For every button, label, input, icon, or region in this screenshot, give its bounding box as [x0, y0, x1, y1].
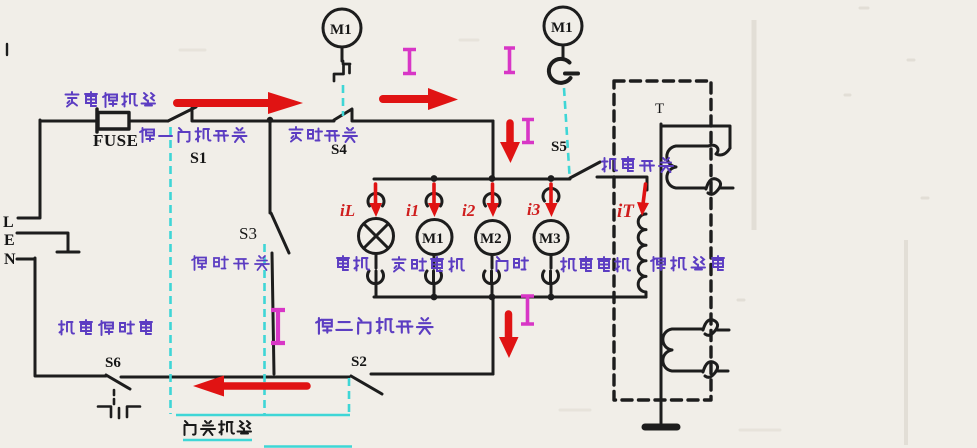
winding: secondary 2 terminal curl upper: [703, 320, 729, 336]
arrow iT primary current: [643, 184, 646, 204]
motor M2 fan circle: [476, 221, 510, 255]
wire: lamp bottom stem: [375, 254, 378, 269]
node dot i3 bottom: [548, 294, 555, 301]
wire: cyan dashed S1 linkage: [169, 127, 172, 414]
arrow I down at feed riser: [506, 123, 514, 144]
label I mark 5 (at S3 leg): [271, 310, 285, 343]
wire: left riser down to L terminal: [18, 120, 40, 218]
wire: top wire S4 to right corner: [352, 120, 493, 123]
wire: M1 stem to bus: [433, 284, 436, 297]
wire: feed riser from top wire down to branch bus: [492, 121, 495, 178]
motor M1 timer motor circle: [417, 220, 452, 255]
arrow I right after S4: [383, 95, 430, 103]
wire: cyan dashed S3 linkage: [263, 244, 266, 414]
wire: M3 stem to bus: [550, 284, 553, 297]
cyan door-state dashed lines: [171, 85, 570, 447]
svg-text:M3: M3: [539, 231, 561, 247]
wire: cyan bottom edge mark: [264, 445, 352, 448]
label 热电断路器 thermal breaker: [59, 320, 152, 335]
wire: cyan door-state box bottom: [176, 414, 350, 417]
wire: cyan dashed S2 linkage: [348, 378, 351, 414]
node E terminal wire: [17, 233, 79, 252]
wire: cyan dashed M1 to S5 linkage: [564, 88, 570, 175]
black latin labels: [3, 20, 664, 371]
wire: top mains wire from left riser to S1: [40, 120, 168, 123]
svg-text:S6: S6: [105, 355, 121, 371]
wire: S3 lower leg to bottom rail: [272, 253, 274, 374]
arrow I right after S1: [177, 99, 270, 107]
label 定时开关 timer switch: [290, 127, 358, 142]
black chinese label 门关状态 door closed state: [185, 421, 252, 435]
wire: bottom rail from S6 to S2: [121, 376, 349, 379]
motor M1 top-left (timer motor coupling): [323, 9, 361, 47]
label 第一闩锁开关 first interlock switch: [140, 128, 247, 142]
connector hook top of M3 branch: [543, 188, 559, 201]
arrow I down at bottom riser: [505, 314, 513, 339]
node junction at S3 tap: [267, 117, 273, 123]
wire: cyan underline of door label: [183, 439, 252, 442]
wire: branch bottom bus to primary coil: [374, 296, 646, 299]
winding: secondary 1 coil: [667, 146, 708, 188]
winding: secondary 1 terminal curl upper: [708, 145, 730, 155]
label 第二闩锁开关 second interlock switch: [316, 318, 432, 334]
svg-text:T: T: [655, 101, 664, 117]
svg-text:i2: i2: [462, 201, 476, 220]
svg-text:N: N: [4, 251, 16, 268]
wire: transformer core/earth conductor: [660, 124, 663, 423]
motor M3 turntable circle: [534, 221, 568, 255]
node dot i1 bottom: [431, 294, 438, 301]
wire: M2 bottom stem: [491, 255, 494, 269]
switch S2 blade: [351, 376, 382, 394]
node dot i1 top: [431, 175, 438, 182]
wire: S3 drop from top wire: [269, 120, 272, 213]
inductor LP primary coil: [638, 214, 646, 297]
arrow i3 branch current: [549, 184, 553, 205]
winding: secondary 1 terminal curl lower: [706, 179, 733, 195]
svg-text:S4: S4: [331, 142, 347, 158]
wires and components: [7, 7, 733, 427]
switch S5 blade: [570, 162, 600, 178]
label 电灯 lamp: [337, 256, 369, 271]
wire: bottom rail from S2 to riser: [371, 373, 493, 376]
connector hook bottom of lamp branch: [368, 271, 384, 284]
svg-text:M1: M1: [330, 22, 352, 38]
connector hook bottom of M2 branch: [484, 271, 500, 284]
winding: secondary 2 coil: [663, 329, 703, 371]
wire: riser from bottom rail up to branch bottom bus: [492, 297, 495, 374]
switch S6 blade: [106, 375, 130, 389]
motor M1 top-right (timer motor coupling): [544, 7, 582, 45]
label 转盘电机 turntable motor: [561, 257, 630, 272]
wire: cyan dashed M1 to S4 linkage: [342, 85, 345, 116]
arrow iL branch current: [374, 184, 378, 205]
wire: N terminal stub and drop to bottom rail: [17, 258, 106, 376]
wire: M3 bottom stem: [550, 255, 553, 269]
switch S1 blade and contact: [168, 107, 196, 121]
arrow i2 branch current: [491, 184, 495, 205]
switch S4 blade and contact: [334, 109, 352, 120]
connector hook bottom of M3 branch: [543, 271, 559, 284]
svg-text:iT: iT: [617, 201, 635, 222]
winding: secondary 2 terminal curl lower: [703, 362, 728, 378]
mechanical cam hook under top-right M1: [549, 59, 578, 83]
node dot i3 top: [548, 175, 555, 182]
svg-text:L: L: [3, 214, 14, 231]
label 风扇 fan: [497, 257, 529, 271]
svg-text:FUSE: FUSE: [93, 131, 138, 150]
label 定时电机 timer motor: [393, 257, 465, 272]
ground symbol at transformer bottom: [645, 424, 677, 431]
connector hook bottom of M1 branch: [426, 271, 442, 284]
transformer T dashed core box: [614, 81, 711, 400]
connector hook top of M2 branch: [484, 193, 500, 206]
winding: secondary 1 top link bar: [661, 126, 730, 148]
switch S3 blade: [271, 213, 289, 253]
label I mark 4: [521, 296, 534, 324]
svg-text:i3: i3: [527, 200, 541, 219]
svg-text:M1: M1: [551, 20, 573, 36]
magenta current I marks: [271, 48, 534, 343]
wire: lamp stem to bus: [375, 284, 378, 297]
wire: S5 to primary coil corner: [597, 177, 647, 190]
connector hook top of M1 branch: [426, 193, 442, 206]
arrow i1 branch current: [432, 184, 436, 205]
red branch current labels: [340, 200, 635, 222]
label 短路开关 shorting switch: [192, 256, 269, 270]
mechanical interlock symbol under top-left M1: [334, 61, 350, 81]
node dot i2 bottom: [489, 294, 496, 301]
label I mark 1: [403, 50, 416, 74]
lamp EL circle with cross: [359, 219, 394, 254]
label I mark 3: [522, 120, 534, 143]
svg-text:M2: M2: [480, 231, 502, 247]
fuse FUSE body: [98, 113, 129, 130]
wire: M1 bottom stem: [433, 255, 436, 269]
label 初级线圈 primary coil: [651, 256, 724, 271]
wire: top wire S1 to S4: [192, 120, 334, 123]
svg-text:S5: S5: [551, 139, 567, 155]
svg-text:iL: iL: [340, 201, 355, 220]
arrow I left on bottom rail: [222, 382, 307, 390]
node dot i2 top: [489, 175, 496, 182]
label I mark 2: [504, 48, 515, 73]
svg-text:S3: S3: [239, 224, 257, 243]
red current arrows: [177, 88, 649, 397]
svg-text:E: E: [4, 232, 15, 249]
stray ink tick top-left margin: [6, 44, 8, 55]
svg-text:S1: S1: [190, 150, 207, 167]
purple chinese labels (pseudo glyphs): [59, 92, 724, 335]
label 市电保险丝 mains fuse: [66, 92, 156, 107]
label 功能开关 function switch: [602, 157, 673, 172]
thermal cutout element below S6: [113, 390, 116, 404]
wire: M2 stem to bus: [491, 284, 494, 297]
wire: branch top bus: [374, 178, 570, 181]
svg-text:S2: S2: [351, 354, 367, 370]
svg-text:M1: M1: [422, 231, 444, 247]
connector hook top of lamp branch: [368, 193, 384, 206]
svg-text:i1: i1: [406, 201, 419, 220]
